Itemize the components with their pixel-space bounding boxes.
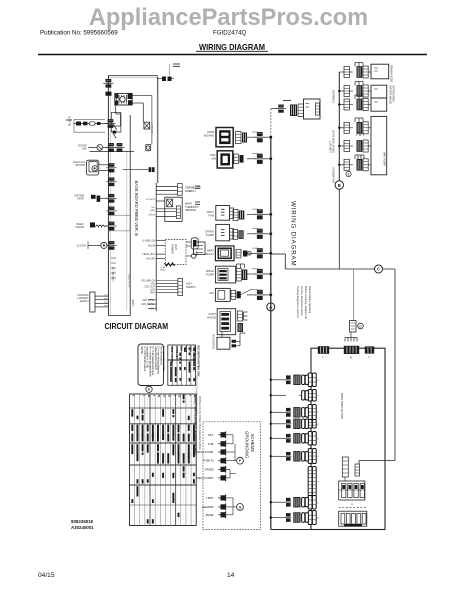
svg-text:VAV PUMP: VAV PUMP <box>383 152 387 166</box>
svg-text:DOORLOCK: DOORLOCK <box>212 334 216 349</box>
svg-text:LAMP: LAMP <box>131 299 135 306</box>
svg-text:BLACK: BLACK <box>68 116 72 126</box>
svg-text:WASH PUMP: WASH PUMP <box>196 450 214 454</box>
svg-text:VALVE: VALVE <box>75 225 84 229</box>
svg-text:HINGE: HINGE <box>207 315 216 319</box>
svg-text:SKT: SKT <box>208 433 214 437</box>
svg-text:+12V SA_7H: +12V SA_7H <box>111 267 115 282</box>
svg-text:LOW WTT: LOW WTT <box>329 140 333 153</box>
svg-text:SCHEME: SCHEME <box>250 434 255 453</box>
svg-text:FGID2474Q: FGID2474Q <box>213 30 247 37</box>
svg-text:before servicing. Replace all: before servicing. Replace all <box>304 286 308 319</box>
svg-text:WIRING DIAGRAM: WIRING DIAGRAM <box>199 43 265 52</box>
svg-text:RELAY: RELAY <box>205 252 214 256</box>
svg-text:DRAIN HOSE: DRAIN HOSE <box>390 65 394 83</box>
svg-text:service, disconnect power: service, disconnect power <box>300 286 304 316</box>
svg-text:LACPV 14: LACPV 14 <box>128 274 132 288</box>
svg-text:TUB: TUB <box>208 442 214 446</box>
svg-text:Q-CHO: Q-CHO <box>77 244 87 248</box>
svg-text:WIRE COLOR: WIRE COLOR <box>170 346 173 362</box>
svg-text:CONNECTIONS REQUIRED AT INTERV: CONNECTIONS REQUIRED AT INTERVALS MARKED <box>193 395 196 455</box>
svg-text:KEY SWITCH RATING 120V: KEY SWITCH RATING 120V <box>197 346 200 377</box>
svg-text:E = ground terminals: E = ground terminals <box>162 347 166 373</box>
svg-text:ARF_BLTW: ARF_BLTW <box>141 303 154 306</box>
svg-text:panels before operating.: panels before operating. <box>308 286 312 314</box>
svg-text:GEN: GEN <box>160 270 165 272</box>
svg-text:DISP: DISP <box>77 197 84 201</box>
svg-text:+I2V: +I2V <box>149 307 154 310</box>
svg-text:BASE BOARD P8800 VER. B: BASE BOARD P8800 VER. B <box>134 181 139 237</box>
svg-text:A30245001: A30245001 <box>71 525 94 530</box>
svg-text:SUPPLY: SUPPLY <box>186 285 196 289</box>
svg-text:GND: GND <box>150 291 156 294</box>
svg-text:SW: SW <box>82 147 87 151</box>
svg-text:LIMIT: LIMIT <box>206 496 214 500</box>
svg-text:PRIZE: PRIZE <box>205 467 214 471</box>
svg-text:EARTH: EARTH <box>80 299 89 303</box>
svg-text:WASHDRUM: WASHDRUM <box>332 168 336 183</box>
svg-text:PUMP: PUMP <box>206 272 214 276</box>
svg-text:VIO MTR: VIO MTR <box>146 199 156 201</box>
svg-text:C: C <box>377 267 380 272</box>
svg-text:MAIN DISPLAY BRD: MAIN DISPLAY BRD <box>340 393 344 419</box>
svg-text:WIRING DIAGRAM: WIRING DIAGRAM <box>290 201 297 267</box>
svg-text:CIRCUIT DIAGRAM: CIRCUIT DIAGRAM <box>105 321 169 331</box>
svg-text:YEL/W: YEL/W <box>148 245 156 248</box>
svg-text:A: A <box>351 502 353 506</box>
svg-text:14: 14 <box>227 572 235 579</box>
svg-text:DIV: DIV <box>209 291 214 295</box>
svg-text:WIRING COLOR CODES PER DIAGRAM: WIRING COLOR CODES PER DIAGRAM NOTED <box>198 396 201 450</box>
svg-text:+5V_RD: +5V_RD <box>146 257 155 260</box>
svg-text:BASE: BASE <box>206 513 214 517</box>
svg-text:Publication No: 5995660569: Publication No: 5995660569 <box>40 30 118 37</box>
svg-text:SBS SW: SBS SW <box>151 125 153 134</box>
svg-text:CODE KEY: CODE KEY <box>175 346 178 359</box>
svg-text:HEATER: HEATER <box>202 505 214 509</box>
svg-text:MOTOR: MOTOR <box>75 163 85 167</box>
svg-text:SW: SW <box>211 156 216 160</box>
svg-text:RES CONST: RES CONST <box>197 476 214 480</box>
svg-text:UNIT: UNIT <box>174 244 178 250</box>
svg-text:PUR B: PUR B <box>148 215 155 217</box>
svg-text:FUSE M: FUSE M <box>203 459 215 463</box>
svg-text:FORWASH: FORWASH <box>332 90 336 103</box>
svg-text:If wiring diagram is used for: If wiring diagram is used for <box>296 286 300 318</box>
svg-text:UPPER ARM: UPPER ARM <box>392 85 396 102</box>
svg-text:BLK: BLK <box>179 346 182 351</box>
svg-text:E: E <box>348 172 350 176</box>
svg-text:ART_UTW: ART_UTW <box>142 299 154 302</box>
svg-text:BOARD: BOARD <box>204 133 214 137</box>
svg-text:RED: RED <box>150 210 155 212</box>
svg-text:U-LINE_GN: U-LINE_GN <box>142 239 155 242</box>
svg-text:FIELD_BLK: FIELD_BLK <box>142 253 155 256</box>
svg-text:PUMP: PUMP <box>206 233 214 237</box>
svg-text:B: B <box>338 183 341 188</box>
svg-text:ENERGY: ENERGY <box>185 189 196 193</box>
svg-text:04/15: 04/15 <box>38 572 55 579</box>
svg-text:AppliancePartsPros.com: AppliancePartsPros.com <box>89 5 368 31</box>
svg-text:SENSOR: SENSOR <box>185 208 196 212</box>
svg-text:F: F <box>239 459 241 463</box>
svg-text:808236818: 808236818 <box>71 519 94 524</box>
svg-text:FAN: FAN <box>209 213 214 217</box>
svg-text:GROUNDING: GROUNDING <box>245 431 250 459</box>
